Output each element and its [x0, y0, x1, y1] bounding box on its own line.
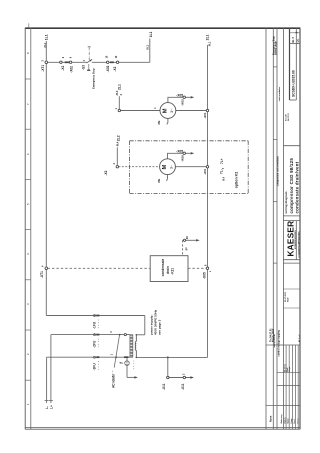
svg-text:1: 1: [115, 107, 118, 109]
svg-text:-X05: -X05: [202, 272, 206, 279]
arrowhead T1 tap: [134, 376, 138, 378]
terminal M1 top branch: [183, 96, 185, 98]
terminal XT1 junction lower: [45, 267, 48, 270]
wire C end tick: [45, 400, 49, 402]
svg-text:1L1: 1L1: [44, 34, 48, 40]
svg-text:-1FU: -1FU: [93, 321, 97, 329]
svg-text:L-: L-: [45, 406, 49, 409]
svg-text:T1: T1: [119, 361, 123, 365]
svg-text:SCSDX-U2015.00: SCSDX-U2015.00: [291, 70, 295, 97]
svg-text:2: 2: [26, 353, 30, 355]
svg-text:option K2: option K2: [234, 172, 238, 189]
arrowhead above connection box: [196, 239, 200, 241]
svg-text:Wolf: Wolf: [288, 297, 290, 302]
fuse/connector symbols on wires A B C: [94, 315, 100, 359]
emergency-stop branch wire right part: [92, 61, 150, 63]
terminal -X02:10: [107, 61, 109, 63]
svg-text:30: 30: [185, 236, 189, 240]
svg-text:5: 5: [26, 203, 30, 205]
svg-text:4: 4: [26, 253, 30, 255]
drawing number box bottom: [290, 99, 297, 101]
dashed wire box to rail terminal: [188, 267, 206, 269]
svg-text:-X2: -X2: [113, 66, 117, 71]
wire jog left to secondary top: [136, 334, 145, 336]
svg-text:Name: Name: [288, 418, 290, 423]
terminal -X2:10: [116, 61, 118, 63]
sheet-number box verticals: [289, 28, 291, 100]
motor M1: [160, 103, 176, 119]
svg-text:-X02: -X02: [69, 66, 73, 73]
wire from secondary bottom to rail: [136, 356, 207, 358]
sheet-number box cell lines: [290, 32, 301, 34]
switch blade lower (transformer primary switch): [114, 335, 119, 368]
plug segment between -X02/-X2 right: [110, 61, 114, 63]
fold mark tick above frame: [28, 23, 30, 27]
wire B vertical down: [50, 335, 52, 403]
svg-text:-2FU: -2FU: [93, 340, 97, 348]
terminal X11 right: [183, 376, 185, 378]
T1 circled symbol: [125, 361, 130, 366]
svg-text:AC loads: AC loads: [112, 374, 116, 388]
svg-text:/9.1: /9.1: [43, 42, 47, 47]
option K2 dash-dot box: [130, 141, 249, 194]
svg-text:1L1: 1L1: [149, 31, 153, 37]
svg-text:3: 3: [26, 303, 30, 305]
svg-text:Ers.d: Ers.d: [298, 418, 300, 424]
wire 1L1 vertical (left long wire): [45, 41, 47, 316]
X11 branch horizontal: [169, 377, 192, 379]
motor M1 feed wire: [121, 110, 161, 112]
junction dot X11 tee: [167, 356, 169, 358]
arrowhead M1 branch: [191, 96, 195, 98]
svg-text:condensate: condensate: [161, 258, 165, 276]
svg-text:gn: gn: [185, 247, 188, 250]
svg-text:3: 3: [83, 59, 86, 61]
wire 1L1 horizontal run to transformer jog: [46, 315, 145, 317]
line under logo: [283, 262, 300, 264]
revision table verticals: [285, 345, 287, 429]
dots below switch blade: [111, 370, 114, 373]
junction dot wire B / switch: [119, 334, 121, 336]
svg-text:M: M: [162, 165, 168, 170]
transformer secondary end dots: [136, 334, 138, 336]
title block full-height line 2: [272, 28, 274, 430]
thick plug segments: [65, 62, 129, 357]
T1 secondary tap down: [126, 357, 128, 360]
svg-text:Bearb. Wolf: Bearb. Wolf: [272, 329, 275, 342]
svg-text:-X02: -X02: [106, 65, 110, 72]
motor M2 PE pigtail: [167, 175, 168, 181]
svg-text:drain: drain: [166, 266, 170, 274]
svg-text:safety chain: safety chain: [275, 41, 278, 55]
svg-text:7L+: 7L+: [220, 158, 224, 164]
motor M2 top branch elbow: [168, 153, 184, 159]
svg-text:-X05: -X05: [176, 93, 183, 97]
KAESER logo box: [283, 220, 300, 222]
svg-text:KOMPRESSOREN: KOMPRESSOREN: [295, 230, 297, 249]
svg-text:compressor unit ventilator: compressor unit ventilator: [276, 156, 279, 186]
connector dotted lines: [98, 320, 134, 380]
S3 operator T cap: [88, 46, 91, 48]
emergency-stop branch wire left part: [46, 61, 87, 63]
svg-text:y: y: [222, 167, 225, 169]
motor M1 top branch elbow: [168, 97, 183, 102]
title block full-height line 3: [276, 28, 278, 430]
title block full-height line 4: [282, 28, 284, 430]
svg-text:Anderung: Anderung: [280, 414, 283, 424]
index strip ticks: [25, 79, 31, 380]
frame right border: [299, 28, 301, 430]
svg-text:Bl. 5 v.5: Bl. 5 v.5: [299, 334, 301, 342]
frame outer border top (thick): [25, 27, 300, 29]
svg-text:4: 4: [42, 265, 45, 267]
rail vertical right: [207, 45, 209, 357]
svg-text:1: 1: [110, 353, 113, 355]
motor M1 wire to rail: [176, 110, 207, 112]
terminal on wire B before transformer: [124, 334, 126, 336]
svg-text:/9.4: /9.4: [222, 176, 225, 181]
function column cell dividers: [273, 66, 277, 68]
motor M2: [160, 159, 176, 175]
motor M2 wire to rail: [175, 166, 206, 168]
svg-text:9: 9: [62, 56, 65, 58]
svg-text:2: 2: [120, 93, 123, 95]
junction dots: [115, 334, 169, 359]
svg-text:L+: L+: [50, 405, 54, 409]
field lines: [283, 288, 300, 290]
svg-text:9: 9: [69, 56, 72, 58]
svg-text:/9.1: /9.1: [208, 41, 212, 46]
svg-text:Bl. 5: Bl. 5: [291, 36, 295, 42]
svg-text:1: 1: [26, 403, 30, 405]
motor M1 PE pigtail: [167, 118, 168, 124]
connector -3FU on wire C: [94, 356, 96, 358]
wire B end tick: [49, 400, 53, 402]
terminal at rail (connection box): [206, 267, 208, 269]
arrowheads: [134, 96, 199, 379]
svg-text:unit ventilator: unit ventilator: [278, 87, 281, 102]
svg-text:/9.1: /9.1: [145, 44, 149, 49]
connector -2FU on wire B: [94, 334, 96, 336]
motor M2 branch arrow line: [185, 152, 191, 154]
frame bottom border (double): [25, 426, 300, 428]
motor M1 riser: [118, 96, 120, 109]
branch riser to top: [149, 39, 151, 63]
terminal M2 at rail: [206, 166, 208, 168]
branch arrow line above box: [183, 239, 198, 241]
svg-text:-W16: -W16: [181, 155, 185, 162]
svg-text:M: M: [163, 108, 169, 113]
svg-text:Emergency Stop: Emergency Stop: [91, 68, 95, 89]
svg-text:/8.3: /8.3: [115, 90, 119, 95]
index strip column digits: [26, 52, 30, 405]
connector -1FU on wire A: [94, 315, 96, 317]
svg-text:(c) KAESER KOMPRESSOREN: (c) KAESER KOMPRESSOREN: [297, 231, 300, 258]
svg-text:04.07.01: 04.07.01: [287, 112, 290, 121]
svg-text:3~: 3~: [170, 108, 174, 113]
svg-text:Urspr.: Urspr.: [289, 366, 291, 372]
terminal above connection box: [184, 239, 186, 241]
T1 tap below circle: [126, 366, 128, 378]
junction dot wire C / switch: [115, 356, 117, 358]
S3 mushroom cap: [87, 69, 90, 71]
svg-text:Datum: Datum: [283, 417, 286, 423]
motor M2 riser: [116, 147, 118, 165]
title text box lines: [283, 145, 300, 147]
plug segment on wire near T1: [124, 356, 128, 358]
transformer T1 secondary (line with bumps): [135, 335, 136, 358]
svg-text:-XT1: -XT1: [40, 271, 44, 278]
svg-text:2L2: 2L2: [117, 135, 121, 141]
svg-text:-3FU: -3FU: [93, 363, 97, 371]
X11 branch down from junction: [167, 357, 169, 376]
svg-text:control voltage tapping: control voltage tapping: [277, 330, 280, 357]
terminal XT1 junction top: [45, 61, 48, 64]
terminal M1 at rail: [206, 109, 208, 111]
dashed wire XT1 to connection box: [48, 267, 151, 269]
terminal X11 left: [167, 376, 169, 378]
connection box: [150, 256, 188, 282]
wire C vertical down: [46, 357, 48, 403]
S3 blade: [87, 59, 93, 63]
arrowhead M2 branch: [191, 152, 195, 154]
svg-text:-X05: -X05: [176, 149, 183, 153]
svg-text:Ers.f: Ers.f: [294, 419, 296, 424]
svg-text:see page 3: see page 3: [158, 319, 162, 335]
T1 tap elbow right: [127, 376, 136, 378]
svg-text:3~: 3~: [170, 164, 174, 169]
title block full-height line 1: [265, 28, 267, 430]
terminal on M1 riser: [118, 109, 120, 111]
svg-text:2L1: 2L1: [206, 34, 210, 40]
svg-text:/8.4: /8.4: [116, 141, 120, 146]
arrowhead X11 branch: [190, 376, 194, 378]
terminal circles: [45, 61, 209, 379]
svg-text:6: 6: [26, 153, 30, 155]
svg-text:Urspr: Urspr: [291, 418, 293, 423]
svg-text:-X2: -X2: [61, 66, 65, 71]
svg-text:-XT1: -XT1: [41, 65, 45, 72]
terminal M2 top branch: [183, 152, 185, 154]
title block texts: [269, 31, 301, 423]
svg-text:10: 10: [105, 55, 108, 58]
svg-text:1: 1: [154, 107, 157, 109]
frame index strip inner line: [30, 28, 32, 430]
svg-text:2: 2: [110, 331, 113, 333]
S3 operator dash-dot line: [88, 47, 90, 60]
svg-text:-X11: -X11: [162, 383, 166, 390]
svg-text:PE: PE: [157, 120, 161, 124]
revision table horizontals: [277, 344, 300, 346]
terminal -X2:9: [60, 61, 62, 63]
svg-text:-X01: -X01: [203, 168, 207, 174]
svg-text:condensate drain/vent: condensate drain/vent: [294, 161, 299, 213]
dashed branch above connection box: [182, 240, 184, 255]
terminal M2 riser: [116, 166, 118, 168]
svg-text:-K21: -K21: [171, 268, 175, 275]
left column dividers: [266, 344, 273, 346]
plug segment between -X2/-X02 left: [65, 61, 69, 63]
svg-text:8: 8: [26, 52, 30, 54]
svg-text:10: 10: [115, 55, 118, 58]
svg-text:7: 7: [26, 103, 30, 105]
dots below transformer secondary: [132, 360, 135, 363]
svg-text:-W15: -W15: [181, 99, 185, 106]
svg-text:-X11: -X11: [181, 383, 185, 390]
svg-text:-S3: -S3: [82, 65, 86, 70]
svg-text:PE: PE: [157, 179, 161, 183]
svg-text:2: 2: [182, 373, 185, 375]
wire C horizontal (to transformer primary bottom): [47, 356, 130, 358]
motor M1 branch arrow line: [185, 96, 191, 98]
svg-text:-X2: -X2: [104, 170, 108, 175]
wire jog down to transformer secondary top: [144, 316, 146, 335]
transformer T1 primary (hatched bar): [130, 335, 133, 358]
frame left outer line: [24, 28, 26, 430]
motor M2 dashed feed wire: [119, 166, 160, 168]
svg-text:-X01: -X01: [203, 112, 207, 118]
svg-text:2L1: 2L1: [118, 84, 122, 90]
wire B horizontal (to transformer primary top): [51, 334, 130, 336]
svg-text:3: 3: [42, 60, 45, 62]
svg-text:6: 6: [210, 270, 212, 272]
svg-text:wiring diagram: wiring diagram: [284, 191, 288, 214]
svg-text:4: 4: [113, 163, 116, 165]
svg-text:Norm: Norm: [269, 416, 272, 422]
S3 mushroom stem: [88, 64, 90, 69]
terminal -X02:9: [69, 61, 71, 63]
svg-text:v.5: v.5: [297, 39, 300, 43]
